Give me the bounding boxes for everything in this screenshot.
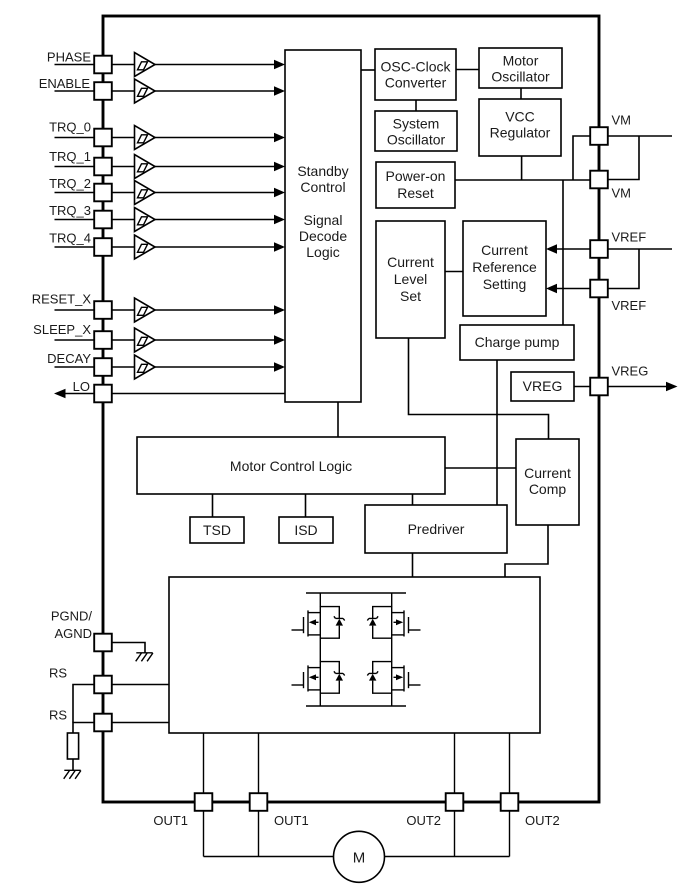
H-bridge bottom rail bbox=[306, 705, 406, 707]
block OSC-Clock Converter bbox=[375, 49, 456, 100]
wire Q3 to bottom rail bbox=[319, 693, 321, 706]
svg-text:Motor: Motor bbox=[503, 53, 539, 69]
wire motor control logic to TSD bbox=[212, 494, 214, 517]
svg-text:AGND: AGND bbox=[54, 626, 92, 641]
pin VM 2 bbox=[590, 171, 631, 201]
svg-text:VM: VM bbox=[612, 113, 632, 128]
wire ENABLE pin to buffer bbox=[112, 90, 135, 92]
wire standby logic to motor control logic bbox=[337, 402, 339, 437]
wire motor oscillator to VCC regulator bbox=[520, 88, 522, 99]
svg-text:RESET_X: RESET_X bbox=[32, 292, 92, 307]
svg-text:RS: RS bbox=[49, 666, 67, 681]
wire TRQ_1 buffer to decode logic bbox=[155, 162, 285, 171]
wire RS pin 2 to H-bridge bbox=[112, 722, 169, 724]
wire resistor to ground bbox=[72, 759, 74, 770]
svg-text:VM: VM bbox=[612, 186, 632, 201]
pin RS 2 bbox=[49, 708, 112, 732]
svg-text:OUT1: OUT1 bbox=[153, 813, 188, 828]
wire SLEEP_X pin to buffer bbox=[112, 339, 135, 341]
schmitt buffer RESET_X bbox=[135, 298, 156, 322]
transistor Q1 (high-side left) with body diode bbox=[292, 607, 345, 639]
wire current level set to current comp bbox=[409, 338, 549, 439]
schmitt buffer TRQ_3 bbox=[135, 208, 156, 232]
wire TRQ_4 buffer to decode logic bbox=[155, 242, 285, 251]
svg-text:Signal: Signal bbox=[304, 212, 343, 228]
schmitt buffer TRQ_1 bbox=[135, 155, 156, 179]
resistor RS sense bbox=[67, 733, 78, 759]
wire top rail to Q2 bbox=[391, 593, 393, 607]
pin RS 1 bbox=[49, 666, 112, 694]
wire TRQ_1 stub bbox=[55, 166, 95, 168]
svg-text:RS: RS bbox=[49, 708, 67, 723]
wire DECAY buffer to decode logic bbox=[155, 362, 285, 371]
wire ENABLE buffer to decode logic bbox=[155, 86, 285, 95]
svg-text:DECAY: DECAY bbox=[47, 351, 91, 366]
block H-bridge output stage bbox=[169, 577, 540, 733]
ground (RS sense) bbox=[64, 770, 81, 779]
svg-text:Current: Current bbox=[481, 242, 528, 258]
block TSD bbox=[190, 517, 244, 543]
wire RS pin 2 to sense resistor bbox=[73, 723, 94, 734]
wire current level set to current reference setting bbox=[445, 271, 463, 273]
schmitt buffer ENABLE bbox=[135, 79, 156, 103]
schmitt buffer DECAY bbox=[135, 355, 156, 379]
svg-text:System: System bbox=[393, 116, 440, 132]
svg-text:Comp: Comp bbox=[529, 481, 567, 497]
wire PHASE stub bbox=[55, 64, 95, 66]
svg-text:TSD: TSD bbox=[203, 522, 231, 538]
wire VM net to charge pump bbox=[562, 180, 564, 325]
pin DECAY bbox=[47, 351, 112, 376]
schmitt buffer TRQ_2 bbox=[135, 181, 156, 205]
wire motor control logic to ISD bbox=[305, 494, 307, 517]
wire Q2 to Q4 mid node bbox=[391, 638, 393, 662]
wire VM pin 1 external bbox=[608, 135, 672, 137]
svg-text:Reset: Reset bbox=[397, 185, 434, 201]
svg-text:Motor Control Logic: Motor Control Logic bbox=[230, 458, 352, 474]
svg-text:OSC-Clock: OSC-Clock bbox=[380, 59, 451, 75]
wire PHASE pin to buffer bbox=[112, 64, 135, 66]
block Charge pump bbox=[460, 325, 574, 360]
pin TRQ_3 bbox=[49, 203, 112, 228]
svg-text:Power-on: Power-on bbox=[386, 168, 446, 184]
svg-text:Decode: Decode bbox=[299, 228, 347, 244]
wire VM pin 1 inner loop bbox=[573, 136, 590, 180]
block ISD bbox=[279, 517, 333, 543]
svg-text:Converter: Converter bbox=[385, 75, 447, 91]
wire VREF pin 1 to current reference setting bbox=[546, 244, 590, 253]
svg-text:Charge pump: Charge pump bbox=[475, 334, 560, 350]
svg-text:VREG: VREG bbox=[612, 364, 649, 379]
wire VREG pin external with arrow bbox=[608, 382, 678, 391]
svg-text:Standby: Standby bbox=[297, 163, 348, 179]
svg-text:LO: LO bbox=[73, 379, 90, 394]
block VCC Regulator bbox=[479, 99, 561, 156]
schmitt buffer PHASE bbox=[135, 53, 156, 77]
svg-text:SLEEP_X: SLEEP_X bbox=[33, 322, 91, 337]
block VREG regulator bbox=[511, 372, 574, 401]
pin TRQ_0 bbox=[49, 120, 112, 147]
wire LO output with arrow bbox=[54, 389, 285, 398]
pin PHASE bbox=[47, 50, 112, 74]
pin VM 1 bbox=[590, 113, 631, 145]
wire VREF pin 1 external bbox=[608, 248, 672, 250]
wire RESET_X pin to buffer bbox=[112, 309, 135, 311]
wire TRQ_0 buffer to decode logic bbox=[155, 133, 285, 142]
svg-text:TRQ_1: TRQ_1 bbox=[49, 149, 91, 164]
wire RS pin 1 to H-bridge bbox=[112, 684, 169, 686]
wire ENABLE stub bbox=[55, 90, 95, 92]
IC outer boundary bbox=[103, 16, 599, 802]
pin PGND/AGND bbox=[51, 609, 112, 652]
pin TRQ_4 bbox=[49, 231, 112, 256]
wire TRQ_2 stub bbox=[55, 192, 95, 194]
transistor Q3 (low-side left) with body diode bbox=[292, 662, 345, 694]
svg-text:TRQ_0: TRQ_0 bbox=[49, 120, 91, 135]
svg-text:M: M bbox=[353, 849, 366, 866]
wire H-bridge to OUT2 pin a bbox=[454, 733, 456, 857]
wire RESET_X buffer to decode logic bbox=[155, 305, 285, 314]
wire RESET_X stub bbox=[55, 309, 95, 311]
schmitt buffer TRQ_4 bbox=[135, 235, 156, 259]
wire TRQ_4 pin to buffer bbox=[112, 246, 135, 248]
wire PGND/AGND pin to ground bbox=[112, 643, 145, 653]
block U1 Standby Control / Signal Decode Logic bbox=[285, 50, 361, 402]
wire top rail to Q1 bbox=[319, 593, 321, 607]
svg-text:Oscillator: Oscillator bbox=[491, 69, 550, 85]
svg-text:OUT2: OUT2 bbox=[525, 813, 560, 828]
wire charge pump to predriver bbox=[496, 360, 498, 505]
block Current Reference Setting bbox=[463, 221, 546, 316]
svg-text:ISD: ISD bbox=[294, 522, 317, 538]
svg-text:Level: Level bbox=[394, 271, 427, 287]
pin RESET_X bbox=[32, 292, 112, 319]
pin TRQ_2 bbox=[49, 176, 112, 201]
pin OUT2 b bbox=[501, 793, 560, 828]
wire motor control logic to current comp bbox=[445, 467, 516, 469]
wire VREF external branch to VREF pin 2 bbox=[608, 249, 639, 289]
transistor Q2 (high-side right) with body diode bbox=[367, 607, 420, 639]
svg-text:ENABLE: ENABLE bbox=[39, 76, 91, 91]
svg-text:Reference: Reference bbox=[472, 259, 537, 275]
svg-text:Current: Current bbox=[387, 254, 434, 270]
svg-text:VCC: VCC bbox=[505, 109, 535, 125]
svg-text:Predriver: Predriver bbox=[408, 521, 465, 537]
svg-text:VREG: VREG bbox=[523, 378, 563, 394]
svg-text:Oscillator: Oscillator bbox=[387, 132, 446, 148]
wire SLEEP_X stub bbox=[55, 339, 95, 341]
schmitt buffer TRQ_0 bbox=[135, 126, 156, 150]
svg-text:Current: Current bbox=[524, 465, 571, 481]
wire TRQ_3 pin to buffer bbox=[112, 219, 135, 221]
pin ENABLE bbox=[39, 76, 112, 100]
svg-text:Regulator: Regulator bbox=[490, 125, 551, 141]
wire OUT2 to motor bbox=[385, 856, 510, 858]
wire current comp to H-bridge bbox=[505, 525, 548, 577]
svg-text:PGND/: PGND/ bbox=[51, 609, 93, 624]
wire power-on reset to VM pin bbox=[455, 179, 590, 181]
svg-text:TRQ_3: TRQ_3 bbox=[49, 203, 91, 218]
wire RS pin 1 left loop bbox=[73, 685, 94, 723]
svg-text:VREF: VREF bbox=[612, 298, 647, 313]
motor M bbox=[334, 831, 385, 882]
transistor Q4 (low-side right) with body diode bbox=[367, 662, 420, 694]
pin TRQ_1 bbox=[49, 149, 112, 175]
wire TRQ_2 pin to buffer bbox=[112, 192, 135, 194]
wire standby to OSC-Clock converter bbox=[361, 69, 375, 71]
H-bridge top rail bbox=[306, 592, 406, 594]
pin SLEEP_X bbox=[33, 322, 112, 349]
svg-text:VREF: VREF bbox=[612, 230, 647, 245]
wire VREG block to VREG pin bbox=[574, 386, 590, 388]
svg-text:Setting: Setting bbox=[483, 276, 527, 292]
ground (PGND/AGND) bbox=[136, 653, 153, 662]
wire VREF pin 2 to current reference setting bbox=[546, 284, 590, 293]
wire H-bridge to OUT1 pin a bbox=[203, 733, 205, 857]
block System Oscillator bbox=[375, 111, 457, 151]
wire DECAY pin to buffer bbox=[112, 366, 135, 368]
svg-text:Control: Control bbox=[300, 179, 345, 195]
wire motor control logic to predriver bbox=[412, 494, 414, 505]
wire TRQ_3 buffer to decode logic bbox=[155, 215, 285, 224]
pin LO bbox=[73, 379, 112, 402]
wire VM external branch to VM pin 2 bbox=[608, 136, 639, 180]
wire H-bridge to OUT2 pin b bbox=[509, 733, 511, 857]
pin VREG bbox=[590, 364, 648, 396]
block Power-on Reset bbox=[376, 162, 455, 208]
wire DECAY stub bbox=[55, 366, 95, 368]
wire Q1 to Q3 mid node bbox=[319, 638, 321, 662]
schmitt buffer SLEEP_X bbox=[135, 328, 156, 352]
wire H-bridge to OUT1 pin b bbox=[258, 733, 260, 857]
wire TRQ_0 stub bbox=[55, 137, 95, 139]
svg-text:OUT1: OUT1 bbox=[274, 813, 309, 828]
svg-text:PHASE: PHASE bbox=[47, 50, 91, 65]
wire predriver to H-bridge bbox=[412, 553, 414, 577]
wire TRQ_0 pin to buffer bbox=[112, 137, 135, 139]
wire SLEEP_X buffer to decode logic bbox=[155, 335, 285, 344]
wire TRQ_1 pin to buffer bbox=[112, 166, 135, 168]
wire TRQ_4 stub bbox=[55, 246, 95, 248]
wire PHASE buffer to decode logic bbox=[155, 60, 285, 69]
svg-text:OUT2: OUT2 bbox=[406, 813, 441, 828]
block Motor Oscillator bbox=[479, 48, 562, 88]
wire TRQ_2 buffer to decode logic bbox=[155, 188, 285, 197]
svg-text:Set: Set bbox=[400, 288, 421, 304]
wire OSC-Clock converter to motor oscillator bbox=[456, 69, 479, 71]
block Motor Control Logic bbox=[137, 437, 445, 494]
wire TRQ_3 stub bbox=[55, 219, 95, 221]
wire OUT1 to motor bbox=[204, 856, 334, 858]
svg-text:TRQ_4: TRQ_4 bbox=[49, 231, 91, 246]
pin OUT1 b bbox=[250, 793, 309, 828]
block Current Comp bbox=[516, 439, 579, 525]
wire OSC-Clock converter to system oscillator bbox=[415, 100, 417, 111]
block Predriver bbox=[365, 505, 507, 553]
pin OUT2 a bbox=[406, 793, 463, 828]
block Current Level Set bbox=[376, 221, 445, 338]
svg-text:TRQ_2: TRQ_2 bbox=[49, 176, 91, 191]
wire Q4 to bottom rail bbox=[391, 693, 393, 706]
pin OUT1 a bbox=[153, 793, 212, 828]
svg-text:Logic: Logic bbox=[306, 244, 339, 260]
wire VCC regulator to VM net bbox=[521, 156, 523, 180]
pin VREF 2 bbox=[590, 280, 646, 313]
pin VREF 1 bbox=[590, 230, 646, 258]
